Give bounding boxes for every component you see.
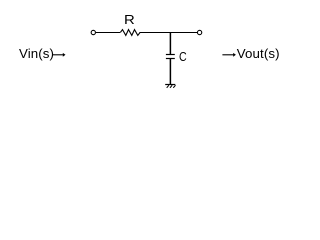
input terminal circle	[91, 30, 95, 34]
output arrow before Vout(s)	[222, 53, 236, 57]
resistor R zigzag	[120, 30, 140, 36]
ground hatch stroke 1	[167, 85, 169, 88]
capacitor bottom plate	[166, 58, 175, 60]
wire: resistor to output terminal	[140, 32, 198, 34]
node Vin label	[19, 47, 54, 60]
input arrow after Vin(s)	[52, 53, 65, 57]
ground bar	[165, 84, 175, 86]
capacitor top plate	[166, 54, 175, 56]
wire: junction down to capacitor top plate	[169, 33, 171, 55]
node Vout label	[237, 47, 280, 60]
resistor R value label	[124, 13, 135, 26]
output terminal circle	[197, 30, 201, 34]
ground hatch stroke 2	[170, 85, 172, 88]
wire: input terminal to resistor	[96, 32, 120, 34]
capacitor C value label	[179, 50, 187, 63]
wire: capacitor bottom plate to ground	[169, 59, 171, 85]
ground hatch stroke 3	[173, 85, 175, 88]
